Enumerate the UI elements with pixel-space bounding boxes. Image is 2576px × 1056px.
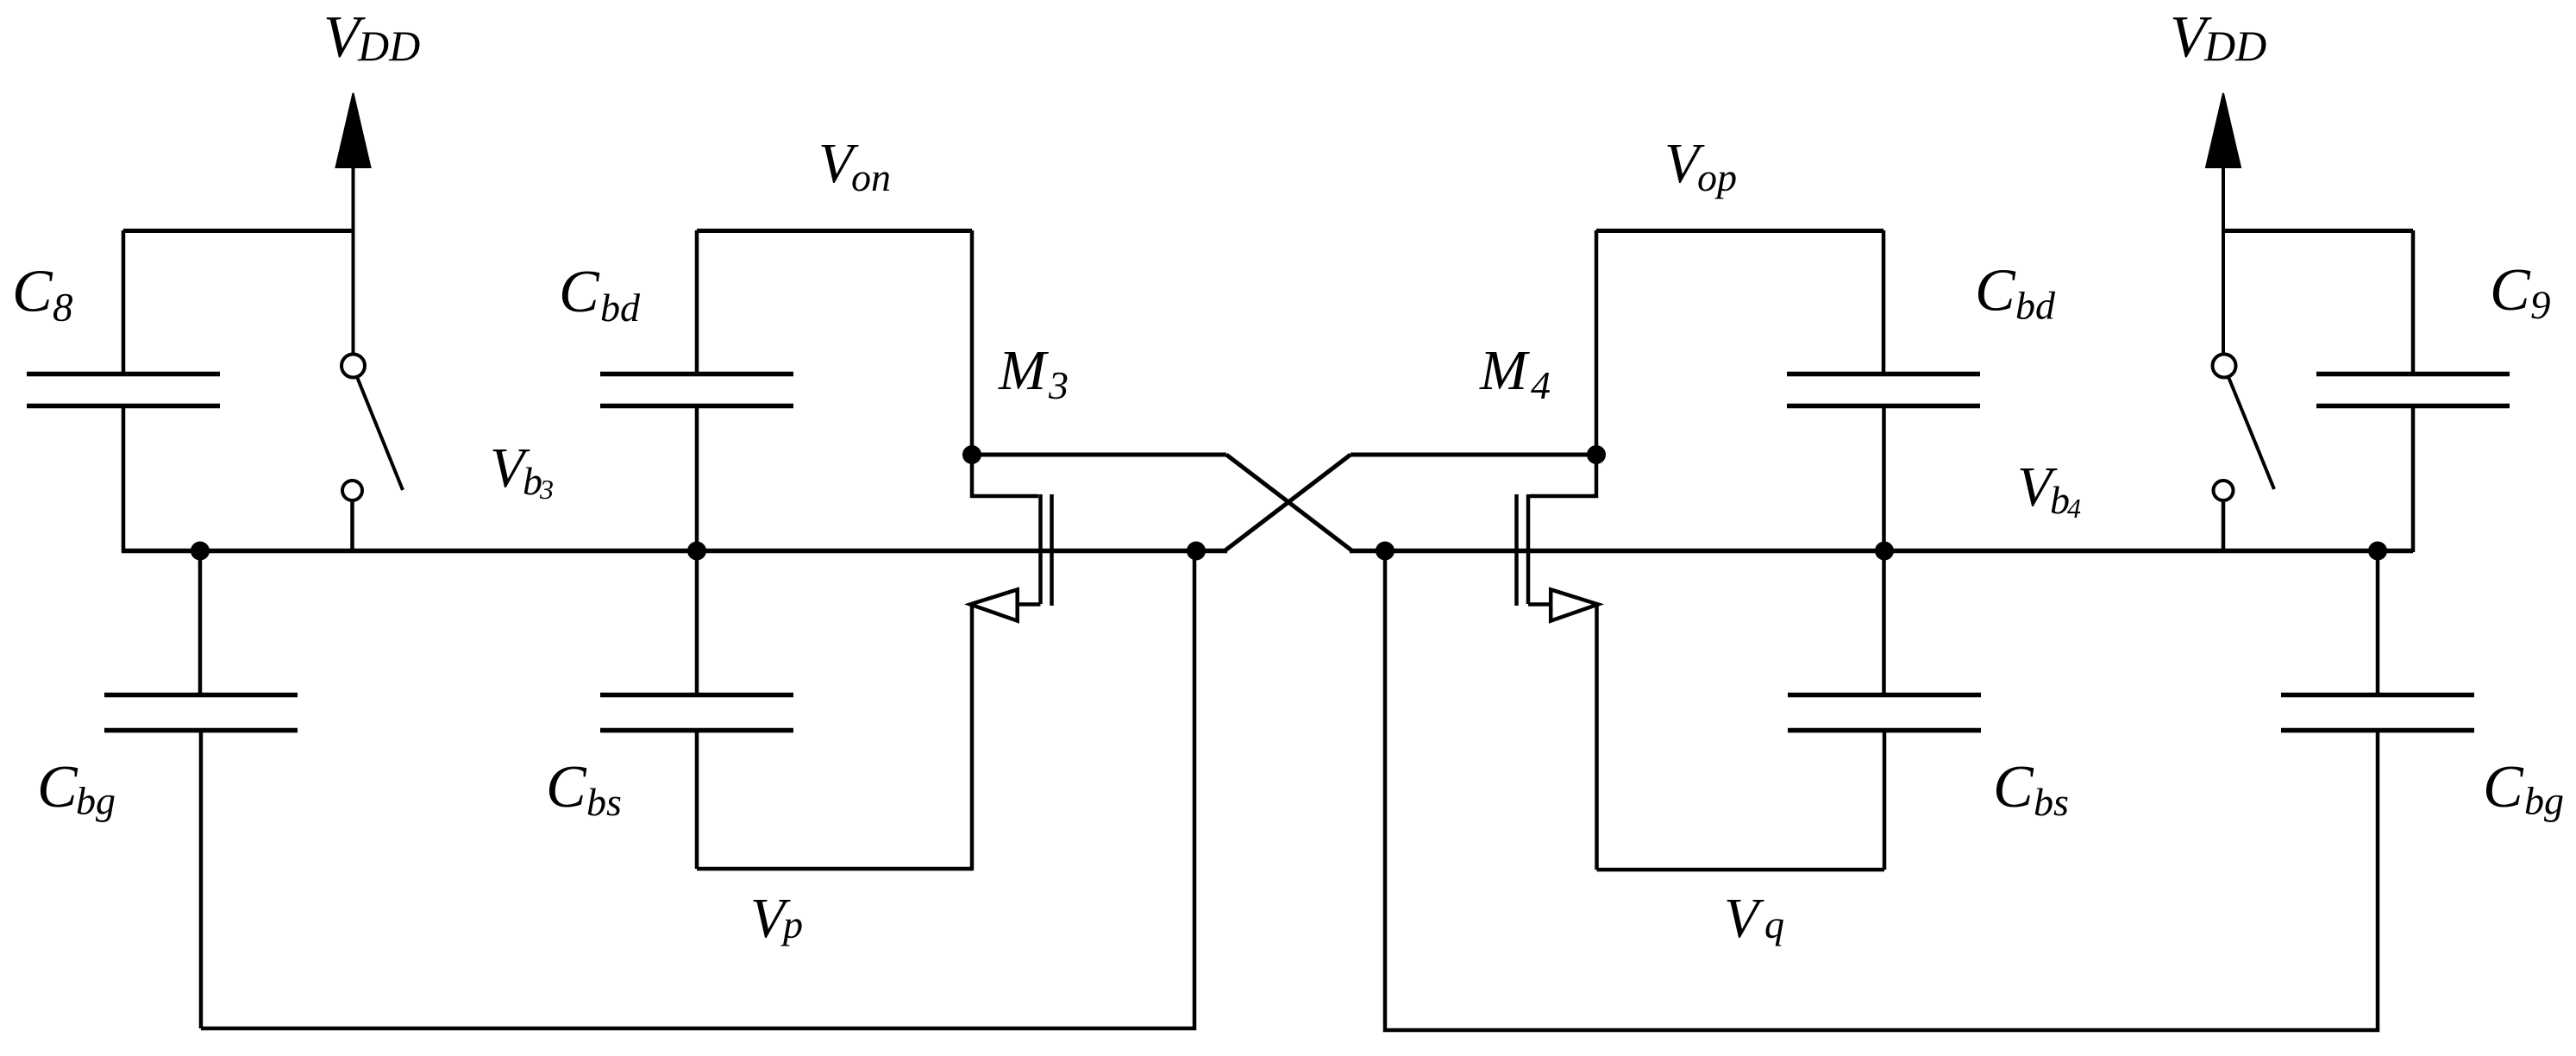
label Vq (1724, 887, 1784, 950)
svg-text:8: 8 (53, 286, 73, 330)
wire Vq loop bottom (1597, 868, 1885, 872)
label C8 (12, 259, 73, 330)
label Vp (750, 887, 803, 950)
label C9 (2490, 257, 2551, 328)
svg-text:q: q (1764, 902, 1784, 946)
main rail left (node Vb3) (122, 549, 1227, 554)
capacitor Cbs (right) (1788, 695, 1981, 871)
svg-text:C: C (2483, 754, 2524, 820)
switch S1 (left) (342, 355, 403, 550)
power VDD label (left) (323, 4, 420, 71)
svg-text:4: 4 (1531, 363, 1551, 407)
crossover diagonal A (1226, 455, 1352, 551)
svg-text:3: 3 (539, 474, 554, 505)
bottom wire left (201, 551, 1194, 1029)
bottom wire right (1385, 551, 2378, 1031)
junction crossover left (1187, 542, 1206, 561)
junction M4 drain (1587, 445, 1606, 464)
capacitor C8 (27, 230, 220, 552)
label Cbg (right) (2483, 754, 2564, 823)
svg-text:C: C (1975, 258, 2016, 324)
wire VDD to C9 top (2223, 229, 2413, 233)
wire VDD to C8 top (123, 229, 354, 233)
power VDD arrow (right) (2206, 93, 2241, 353)
svg-text:C: C (37, 754, 78, 820)
svg-text:bs: bs (586, 780, 622, 824)
svg-text:C: C (559, 259, 600, 325)
svg-text:op: op (1697, 155, 1737, 199)
svg-text:on: on (851, 155, 891, 199)
svg-text:9: 9 (2530, 283, 2551, 328)
transistor M3 (970, 455, 1052, 869)
label Cbg (left) (37, 754, 116, 823)
transistor M4 (1517, 455, 1599, 870)
wire M4 drain to crossover (1351, 453, 1596, 457)
capacitor Cbg (right) (2281, 551, 2474, 731)
svg-text:C: C (2490, 257, 2531, 324)
label Cbd (right) (1975, 258, 2056, 328)
node Vb4 label (2017, 456, 2081, 524)
svg-text:DD: DD (357, 22, 420, 70)
wire Von loop top (697, 230, 972, 455)
svg-text:C: C (12, 259, 53, 325)
svg-text:bd: bd (2015, 284, 2056, 328)
svg-text:3: 3 (1048, 363, 1069, 407)
svg-text:bg: bg (76, 779, 116, 823)
svg-text:C: C (1993, 754, 2034, 820)
crossover diagonal B (1225, 455, 1351, 551)
svg-text:bg: bg (2524, 779, 2564, 823)
power VDD arrow (left) (336, 93, 371, 353)
junction rail/Cbd-Cbs (right) (1875, 542, 1894, 561)
junction rail/Cbg (right) (2368, 542, 2387, 561)
junction M3 drain (962, 445, 981, 464)
label Von (818, 132, 891, 199)
junction crossover right (1376, 542, 1395, 561)
node Vb3 label (490, 437, 554, 505)
svg-text:V: V (1724, 887, 1764, 950)
label Vop (1664, 132, 1737, 199)
capacitor Cbs (left) (600, 695, 793, 870)
capacitor C9 (2316, 230, 2510, 552)
label M4 (1479, 339, 1551, 407)
main rail right (node Vb4) (1350, 549, 2413, 554)
capacitor Cbd (right) (1787, 230, 1980, 693)
svg-text:4: 4 (2067, 493, 2081, 524)
label Cbd (left) (559, 259, 641, 330)
wire M3 drain to crossover (972, 453, 1226, 457)
svg-text:bs: bs (2034, 780, 2069, 824)
wire Vp loop bottom (697, 867, 974, 871)
svg-text:bd: bd (600, 286, 641, 330)
junction rail/Cbd-Cbs (left) (687, 542, 706, 561)
svg-text:p: p (780, 902, 803, 946)
svg-text:DD: DD (2203, 22, 2266, 70)
svg-text:M: M (1479, 339, 1531, 402)
wire Vop loop top (1596, 230, 1883, 455)
capacitor Cbg (left) (104, 551, 298, 1029)
power VDD label (right) (2170, 4, 2266, 71)
svg-text:C: C (546, 754, 587, 820)
junction rail/Cbg (left) (191, 542, 210, 561)
switch S2 (right) (2213, 355, 2275, 550)
label Cbs (left) (546, 754, 622, 824)
capacitor Cbd (left) (600, 230, 793, 693)
svg-text:M: M (998, 339, 1050, 402)
label M3 (998, 339, 1069, 407)
label Cbs (right) (1993, 754, 2069, 824)
